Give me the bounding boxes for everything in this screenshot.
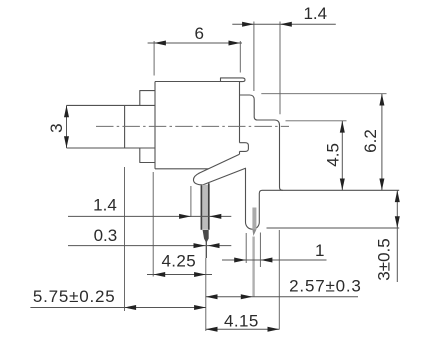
svg-text:4.5: 4.5 (324, 143, 343, 167)
svg-text:4.25: 4.25 (161, 252, 196, 271)
svg-text:6.2: 6.2 (361, 129, 380, 153)
svg-text:4.15: 4.15 (224, 311, 259, 330)
svg-text:3: 3 (47, 123, 66, 132)
svg-text:0.3: 0.3 (94, 226, 118, 245)
svg-text:2.57±0.3: 2.57±0.3 (289, 276, 361, 295)
svg-text:1.4: 1.4 (303, 4, 327, 23)
svg-text:6: 6 (194, 24, 203, 43)
svg-text:3±0.5: 3±0.5 (374, 238, 393, 280)
svg-text:1.4: 1.4 (93, 196, 117, 215)
svg-text:1: 1 (315, 241, 324, 260)
svg-text:5.75±0.25: 5.75±0.25 (33, 287, 116, 306)
